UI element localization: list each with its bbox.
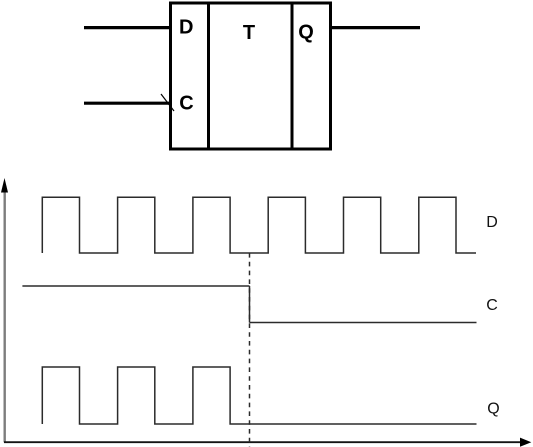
svg-text:D: D	[179, 16, 193, 38]
latch U1 internal divider right	[291, 3, 294, 149]
clock edge slash on C input	[161, 94, 174, 111]
wire C input	[84, 102, 170, 105]
svg-text:C: C	[179, 93, 193, 115]
latch U1 internal divider left	[207, 3, 210, 149]
wire Q output	[331, 26, 420, 29]
timing y-axis	[3, 190, 5, 442]
waveform Q	[42, 367, 476, 424]
svg-text:Q: Q	[298, 22, 314, 44]
waveform C low segment	[250, 322, 477, 324]
latch U1 body	[171, 3, 331, 149]
timing x-axis arrowhead	[520, 438, 531, 447]
svg-text:Q: Q	[487, 400, 499, 417]
wire D input	[84, 26, 170, 29]
waveform C high segment	[22, 285, 249, 287]
svg-text:T: T	[243, 22, 255, 44]
waveform D	[42, 197, 476, 253]
svg-text:C: C	[486, 297, 498, 314]
timing x-axis	[4, 441, 521, 443]
timing y-axis arrowhead	[1, 178, 8, 193]
svg-text:D: D	[486, 214, 498, 231]
dashed event line	[249, 253, 251, 447]
waveform C falling edge	[249, 286, 251, 323]
